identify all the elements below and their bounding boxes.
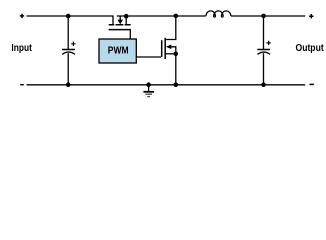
svg-text:Output: Output (296, 42, 325, 54)
svg-text:PWM: PWM (108, 45, 129, 56)
svg-text:Input: Input (11, 42, 32, 54)
